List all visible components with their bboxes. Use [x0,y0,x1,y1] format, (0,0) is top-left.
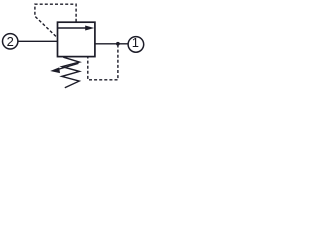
spring [62,57,80,87]
valve body [58,22,95,56]
drain pilot dashed [88,45,118,80]
wire valve to port1 [95,43,128,45]
junction dot [116,42,120,46]
spring adjustment arrow [50,63,78,73]
wire port2 to valve [18,40,58,42]
svg-text:2: 2 [7,34,14,49]
pilot line top dashed [35,4,76,38]
port 2 [3,34,18,49]
port 1 [128,37,144,53]
flow arrow [58,26,94,31]
svg-text:1: 1 [132,35,139,50]
